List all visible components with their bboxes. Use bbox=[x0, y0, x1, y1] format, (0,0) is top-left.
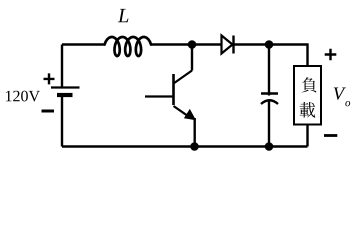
load label char 2 (zai) bbox=[300, 102, 316, 118]
wire: node A to diode anode bbox=[192, 43, 222, 45]
wire: capacitor bottom lead to bottom rail bbox=[268, 101, 270, 147]
transistor emitter lead bbox=[174, 106, 191, 118]
label Vo: V bbox=[334, 87, 346, 99]
transistor collector lead bbox=[174, 71, 193, 84]
label 120V bbox=[6, 91, 40, 102]
load box bbox=[294, 66, 321, 125]
wire: diode cathode to node B bbox=[234, 43, 270, 45]
wire: bottom rail bbox=[62, 145, 308, 147]
wire: collector vertical up to node A bbox=[191, 45, 193, 71]
diode D: anode triangle bbox=[222, 36, 233, 54]
wire: left branch, top-left corner down to battery positive plate bbox=[61, 45, 63, 88]
diode D: cathode bar bbox=[232, 36, 234, 54]
node A junction dot (inductor / collector / diode anode) bbox=[188, 40, 197, 49]
inductor L coil bbox=[105, 37, 151, 56]
battery E 120V: long thin positive plate bbox=[51, 86, 80, 88]
capacitor C: curved bottom plate bbox=[261, 100, 278, 104]
wire: battery negative plate down to bottom rail bbox=[61, 95, 63, 147]
wire: load bottom down to bottom rail bbox=[306, 125, 308, 147]
wire: capacitor top lead from node B bbox=[268, 45, 270, 96]
wire: emitter vertical down to bottom rail bbox=[193, 118, 195, 147]
output minus sign bbox=[324, 134, 337, 137]
junction dot: capacitor bottom to bottom rail bbox=[265, 142, 274, 151]
wire: node B to top-right corner, down to load top bbox=[269, 45, 308, 67]
junction dot: emitter to bottom rail bbox=[190, 142, 199, 151]
battery minus sign bbox=[42, 110, 55, 113]
transistor base lead bbox=[145, 95, 174, 97]
capacitor C: straight top plate bbox=[261, 92, 278, 94]
wire: top rail, inductor to node A bbox=[151, 43, 192, 45]
transistor emitter arrowhead bbox=[184, 109, 196, 120]
label Vo: subscript o bbox=[345, 101, 350, 106]
label L bbox=[118, 9, 129, 22]
output plus sign bbox=[325, 49, 337, 61]
transistor NPN switch: base bar bbox=[172, 74, 175, 105]
node B junction dot (diode cathode / capacitor / load) bbox=[265, 40, 274, 49]
battery plus sign bbox=[44, 73, 55, 84]
load label char 1 (fu) bbox=[302, 77, 317, 92]
wire: top rail, top-left corner to inductor bbox=[62, 43, 105, 45]
battery E 120V: short thick negative plate bbox=[57, 93, 73, 97]
